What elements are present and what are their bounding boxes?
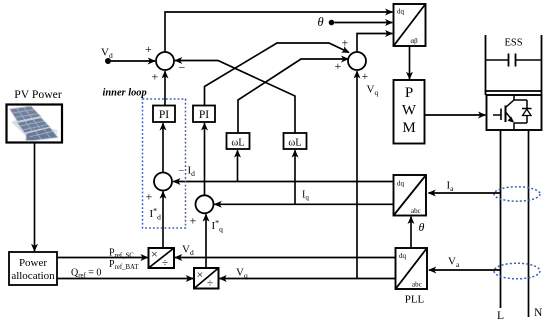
svg-text:L: L bbox=[497, 310, 504, 322]
wire Vd to S1 bbox=[111, 60, 155, 62]
divider block M2 (x ÷) bbox=[194, 268, 219, 290]
svg-text:I*q: I*q bbox=[212, 219, 224, 234]
svg-text:÷: ÷ bbox=[207, 278, 213, 290]
svg-text:abc: abc bbox=[411, 207, 421, 215]
wire Qref to multiplier M2 bbox=[57, 278, 193, 280]
svg-text:Iq: Iq bbox=[302, 190, 309, 202]
svg-text:+: + bbox=[342, 36, 349, 50]
inner loop dotted box bbox=[143, 99, 186, 228]
svg-text:ESS: ESS bbox=[504, 38, 522, 49]
svg-text:+: + bbox=[362, 69, 369, 83]
transform block U3 PLL bbox=[396, 248, 428, 289]
node Vd dot bbox=[105, 58, 111, 64]
wire Id from U2 to S3 bbox=[173, 181, 393, 183]
ESS rail right bbox=[541, 35, 543, 95]
wire theta to dq-ab transform bbox=[334, 22, 392, 24]
wire Iq tap to ωL2 bbox=[294, 150, 296, 204]
svg-text:Pref_BAT: Pref_BAT bbox=[109, 259, 139, 271]
wire ESS divider bbox=[486, 90, 542, 92]
svg-text:PI: PI bbox=[199, 109, 209, 121]
ESS rail left bbox=[485, 35, 487, 95]
current sensor ellipse bbox=[494, 187, 540, 201]
svg-text:Vq: Vq bbox=[236, 267, 248, 280]
svg-text:×: × bbox=[197, 268, 204, 282]
PV panel art bbox=[10, 106, 59, 141]
summing junction S2 bbox=[348, 52, 366, 70]
wire Vd from PLL to M1 bbox=[175, 257, 396, 259]
wire PI2 to S2 bbox=[205, 43, 350, 106]
svg-text:Ia: Ia bbox=[447, 180, 455, 193]
svg-text:dq: dq bbox=[397, 180, 405, 188]
voltage sensor ellipse bbox=[494, 263, 540, 279]
PI controller PI2 bbox=[193, 106, 215, 123]
svg-text:W: W bbox=[402, 103, 417, 119]
wire Ia to transform U2 bbox=[429, 192, 501, 194]
svg-text:M: M bbox=[402, 120, 415, 136]
wire Vq riser to S2 bbox=[356, 71, 358, 278]
svg-text:PI: PI bbox=[159, 109, 169, 121]
wire PV to Power allocation bbox=[34, 143, 36, 252]
summing junction S4 bbox=[196, 195, 214, 213]
wire theta PLL to U2 bbox=[410, 217, 412, 248]
svg-text:+: + bbox=[152, 70, 159, 84]
svg-text:+: + bbox=[335, 59, 342, 73]
summing junction S1 bbox=[156, 52, 174, 70]
svg-text:Power: Power bbox=[19, 257, 47, 269]
svg-text:αβ: αβ bbox=[411, 37, 419, 45]
wire I*d M1 to summing S3 bbox=[162, 192, 164, 249]
wire S2 to dq-ab transform bbox=[357, 34, 392, 53]
wire Va to PLL bbox=[429, 269, 501, 271]
Power allocation block bbox=[9, 252, 57, 285]
converter box bbox=[487, 95, 542, 130]
wire ωL1 to S2 bbox=[238, 59, 348, 133]
PV panel box bbox=[7, 105, 63, 143]
svg-text:×: × bbox=[151, 247, 158, 261]
svg-text:PLL: PLL bbox=[405, 294, 425, 306]
svg-text:inner loop: inner loop bbox=[103, 88, 147, 99]
svg-text:+: + bbox=[146, 190, 153, 204]
wire Iq from U2 to S4 bbox=[215, 203, 394, 205]
wire line N bbox=[528, 130, 530, 317]
wire Pref to multiplier M1 bbox=[57, 257, 148, 259]
svg-text:N: N bbox=[534, 307, 543, 319]
wire S4 to PI2 bbox=[204, 123, 206, 195]
svg-text:Va: Va bbox=[448, 256, 460, 269]
wire S1 to dq-ab transform bbox=[165, 12, 392, 52]
svg-text:−: − bbox=[179, 166, 185, 177]
capacitor C1 bbox=[486, 54, 542, 67]
svg-text:θ: θ bbox=[419, 220, 425, 234]
svg-text:+: + bbox=[145, 42, 152, 56]
svg-text:ωL: ωL bbox=[231, 138, 244, 149]
coupling block ωL1 bbox=[227, 133, 250, 149]
wire I*q M2 to S4 bbox=[205, 214, 207, 268]
PI controller PI1 bbox=[153, 106, 175, 123]
divider block M1 (x ÷) bbox=[149, 247, 175, 269]
svg-text:θ: θ bbox=[318, 15, 324, 29]
svg-text:÷: ÷ bbox=[162, 257, 168, 269]
transistor Q1 IGBT bbox=[493, 95, 527, 130]
summing junction S3 bbox=[154, 173, 172, 191]
svg-text:allocation: allocation bbox=[11, 270, 55, 282]
node theta dot bbox=[329, 20, 335, 26]
svg-text:Vd: Vd bbox=[101, 47, 113, 60]
svg-text:−: − bbox=[179, 61, 186, 75]
wire U1 to PWM bbox=[409, 46, 411, 79]
svg-text:I*d: I*d bbox=[150, 207, 162, 222]
diode D1 bbox=[522, 109, 532, 116]
wire S3 to PI1 bbox=[162, 123, 164, 172]
wire PI1 to summing S1 bbox=[164, 71, 166, 105]
svg-text:dq: dq bbox=[399, 252, 407, 260]
svg-text:ωL: ωL bbox=[288, 138, 301, 149]
svg-text:P: P bbox=[405, 85, 413, 101]
svg-text:Vq: Vq bbox=[367, 84, 379, 97]
svg-text:abc: abc bbox=[412, 281, 422, 289]
svg-text:Vd: Vd bbox=[182, 244, 194, 257]
svg-text:Qref = 0: Qref = 0 bbox=[71, 268, 101, 280]
wire line L bbox=[500, 130, 502, 308]
transform block U2 abc to dq currents bbox=[394, 175, 427, 216]
wire ωL2 to S1 bbox=[175, 61, 295, 134]
svg-text:dq: dq bbox=[397, 8, 405, 16]
svg-text:Id: Id bbox=[188, 165, 196, 178]
wire Id tap to ωL1 bbox=[237, 150, 239, 181]
svg-text:PV Power: PV Power bbox=[14, 88, 62, 101]
coupling block ωL2 bbox=[284, 133, 307, 149]
PWM block bbox=[394, 80, 425, 144]
transform block U1 dq to alpha-beta bbox=[394, 4, 426, 46]
wire Vq from PLL to M2 bbox=[220, 278, 396, 280]
svg-text:+: + bbox=[190, 214, 197, 228]
wire PWM to converter bbox=[425, 114, 486, 116]
svg-text:Pref_SC: Pref_SC bbox=[109, 248, 134, 260]
